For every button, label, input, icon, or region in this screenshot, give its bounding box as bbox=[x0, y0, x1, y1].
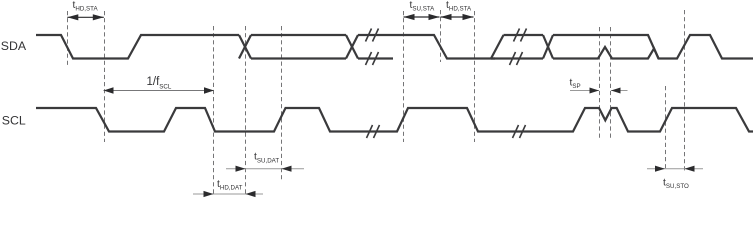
svg-text:SCL: SCL bbox=[2, 114, 26, 128]
svg-text:SDA: SDA bbox=[1, 39, 27, 53]
